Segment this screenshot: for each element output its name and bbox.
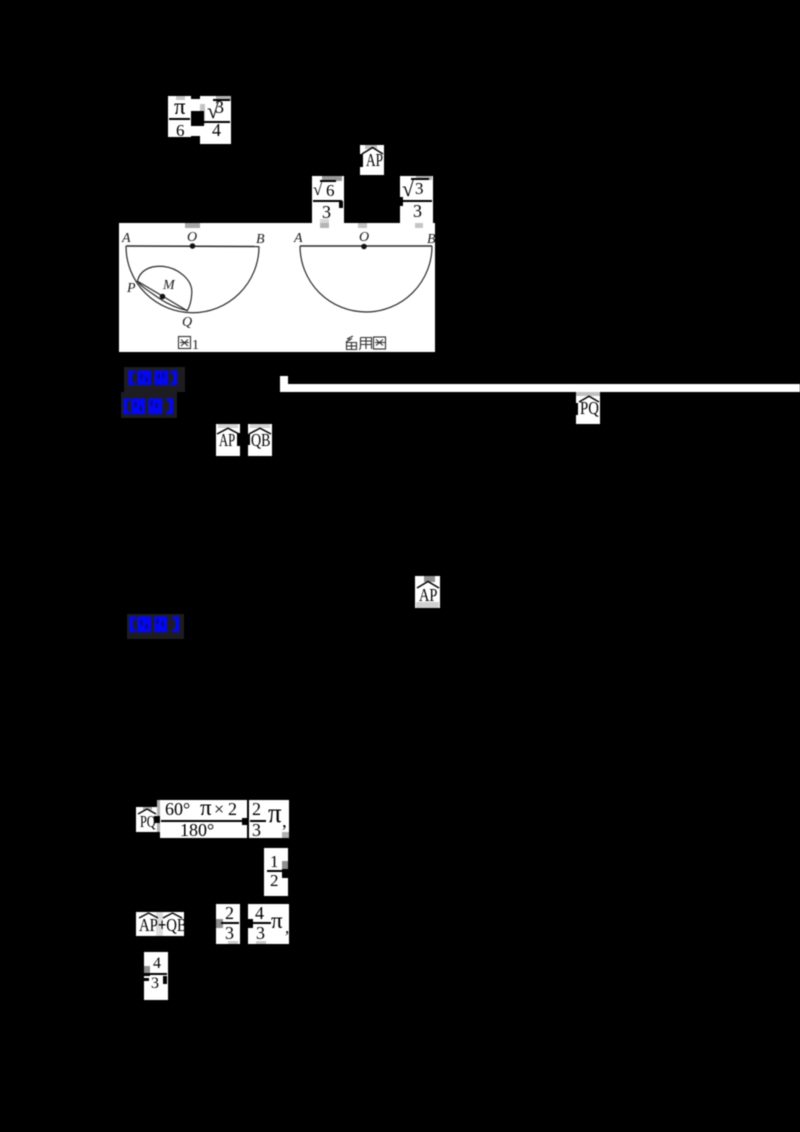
- svg-text:1: 1: [192, 338, 199, 352]
- comma after sqrt(6)/3: [339, 201, 343, 208]
- fig1: small circle through P and Q: [137, 266, 191, 310]
- svg-text:O: O: [359, 230, 369, 245]
- sub-image: 4/3 pi comma: [248, 904, 289, 944]
- equals remnant at left of sqrt(3)/3: [400, 197, 403, 206]
- formula image: arc AP (third): [415, 576, 440, 608]
- equals blob: [242, 818, 249, 825]
- formula image: sqrt(3)/4: [200, 96, 231, 144]
- formula image: 4/3 (last): [144, 952, 168, 1000]
- sub-image: arc PQ: [136, 807, 157, 832]
- svg-text:A: A: [121, 231, 131, 246]
- svg-text:P: P: [126, 281, 136, 296]
- fig1 caption: CJK "tu" glyph: [179, 337, 191, 349]
- blue header: [kao dian]: [124, 367, 185, 392]
- white gap strip between pi/6 and sqrt3/4: [191, 99, 200, 136]
- formula image: sqrt(3)/3: [400, 176, 433, 224]
- formula image: arc PQ (right of fenxi line): [576, 392, 600, 424]
- formula image: sqrt(6)/3: [312, 176, 344, 224]
- fig1: dot O: [190, 243, 196, 249]
- fig1: big semicircle arc: [126, 246, 259, 313]
- fig1 wire: diameter AB: [126, 245, 259, 248]
- sub-image: 2/3 pi comma: [249, 800, 289, 838]
- svg-text:O: O: [187, 230, 197, 245]
- sub-image: 2/3: [216, 904, 240, 944]
- blue header: [fen xi]: [121, 392, 177, 418]
- fig2 caption: CJK "bei yong tu" glyphs: [346, 336, 386, 350]
- formula image: arc AP (first): [360, 145, 384, 175]
- formula image: fraction pi/6: [168, 96, 191, 137]
- formula image: arc AP (second): [216, 424, 240, 456]
- fig1: chord PQ through M: [138, 282, 188, 312]
- sub-image: fraction 60 pi x 2 over 180: [160, 800, 247, 838]
- svg-text:B: B: [256, 232, 265, 247]
- fig1: dot M: [160, 294, 166, 300]
- figure image: two semicircles: [119, 223, 435, 352]
- formula image: 1/2: [264, 848, 288, 896]
- svg-text:B: B: [427, 232, 435, 247]
- fig2: semicircle arc: [300, 246, 432, 312]
- fig2 wire: diameter AB: [300, 245, 432, 247]
- svg-text:A: A: [293, 231, 303, 246]
- svg-text:M: M: [162, 278, 176, 293]
- formula image: arc QB: [248, 424, 272, 456]
- sub-image: arc AP + arc QB: [136, 912, 184, 936]
- gray smudges on figure top edge: [185, 223, 200, 228]
- multiply dot blob: [246, 919, 253, 928]
- white rule with left notch: [280, 376, 288, 392]
- svg-text:Q: Q: [182, 315, 192, 330]
- equals blob: [157, 800, 160, 832]
- blue header: [jie da]: [127, 614, 184, 639]
- fig2: dot O: [361, 244, 367, 250]
- equals blob between: [191, 111, 204, 126]
- equals blob: [210, 921, 218, 927]
